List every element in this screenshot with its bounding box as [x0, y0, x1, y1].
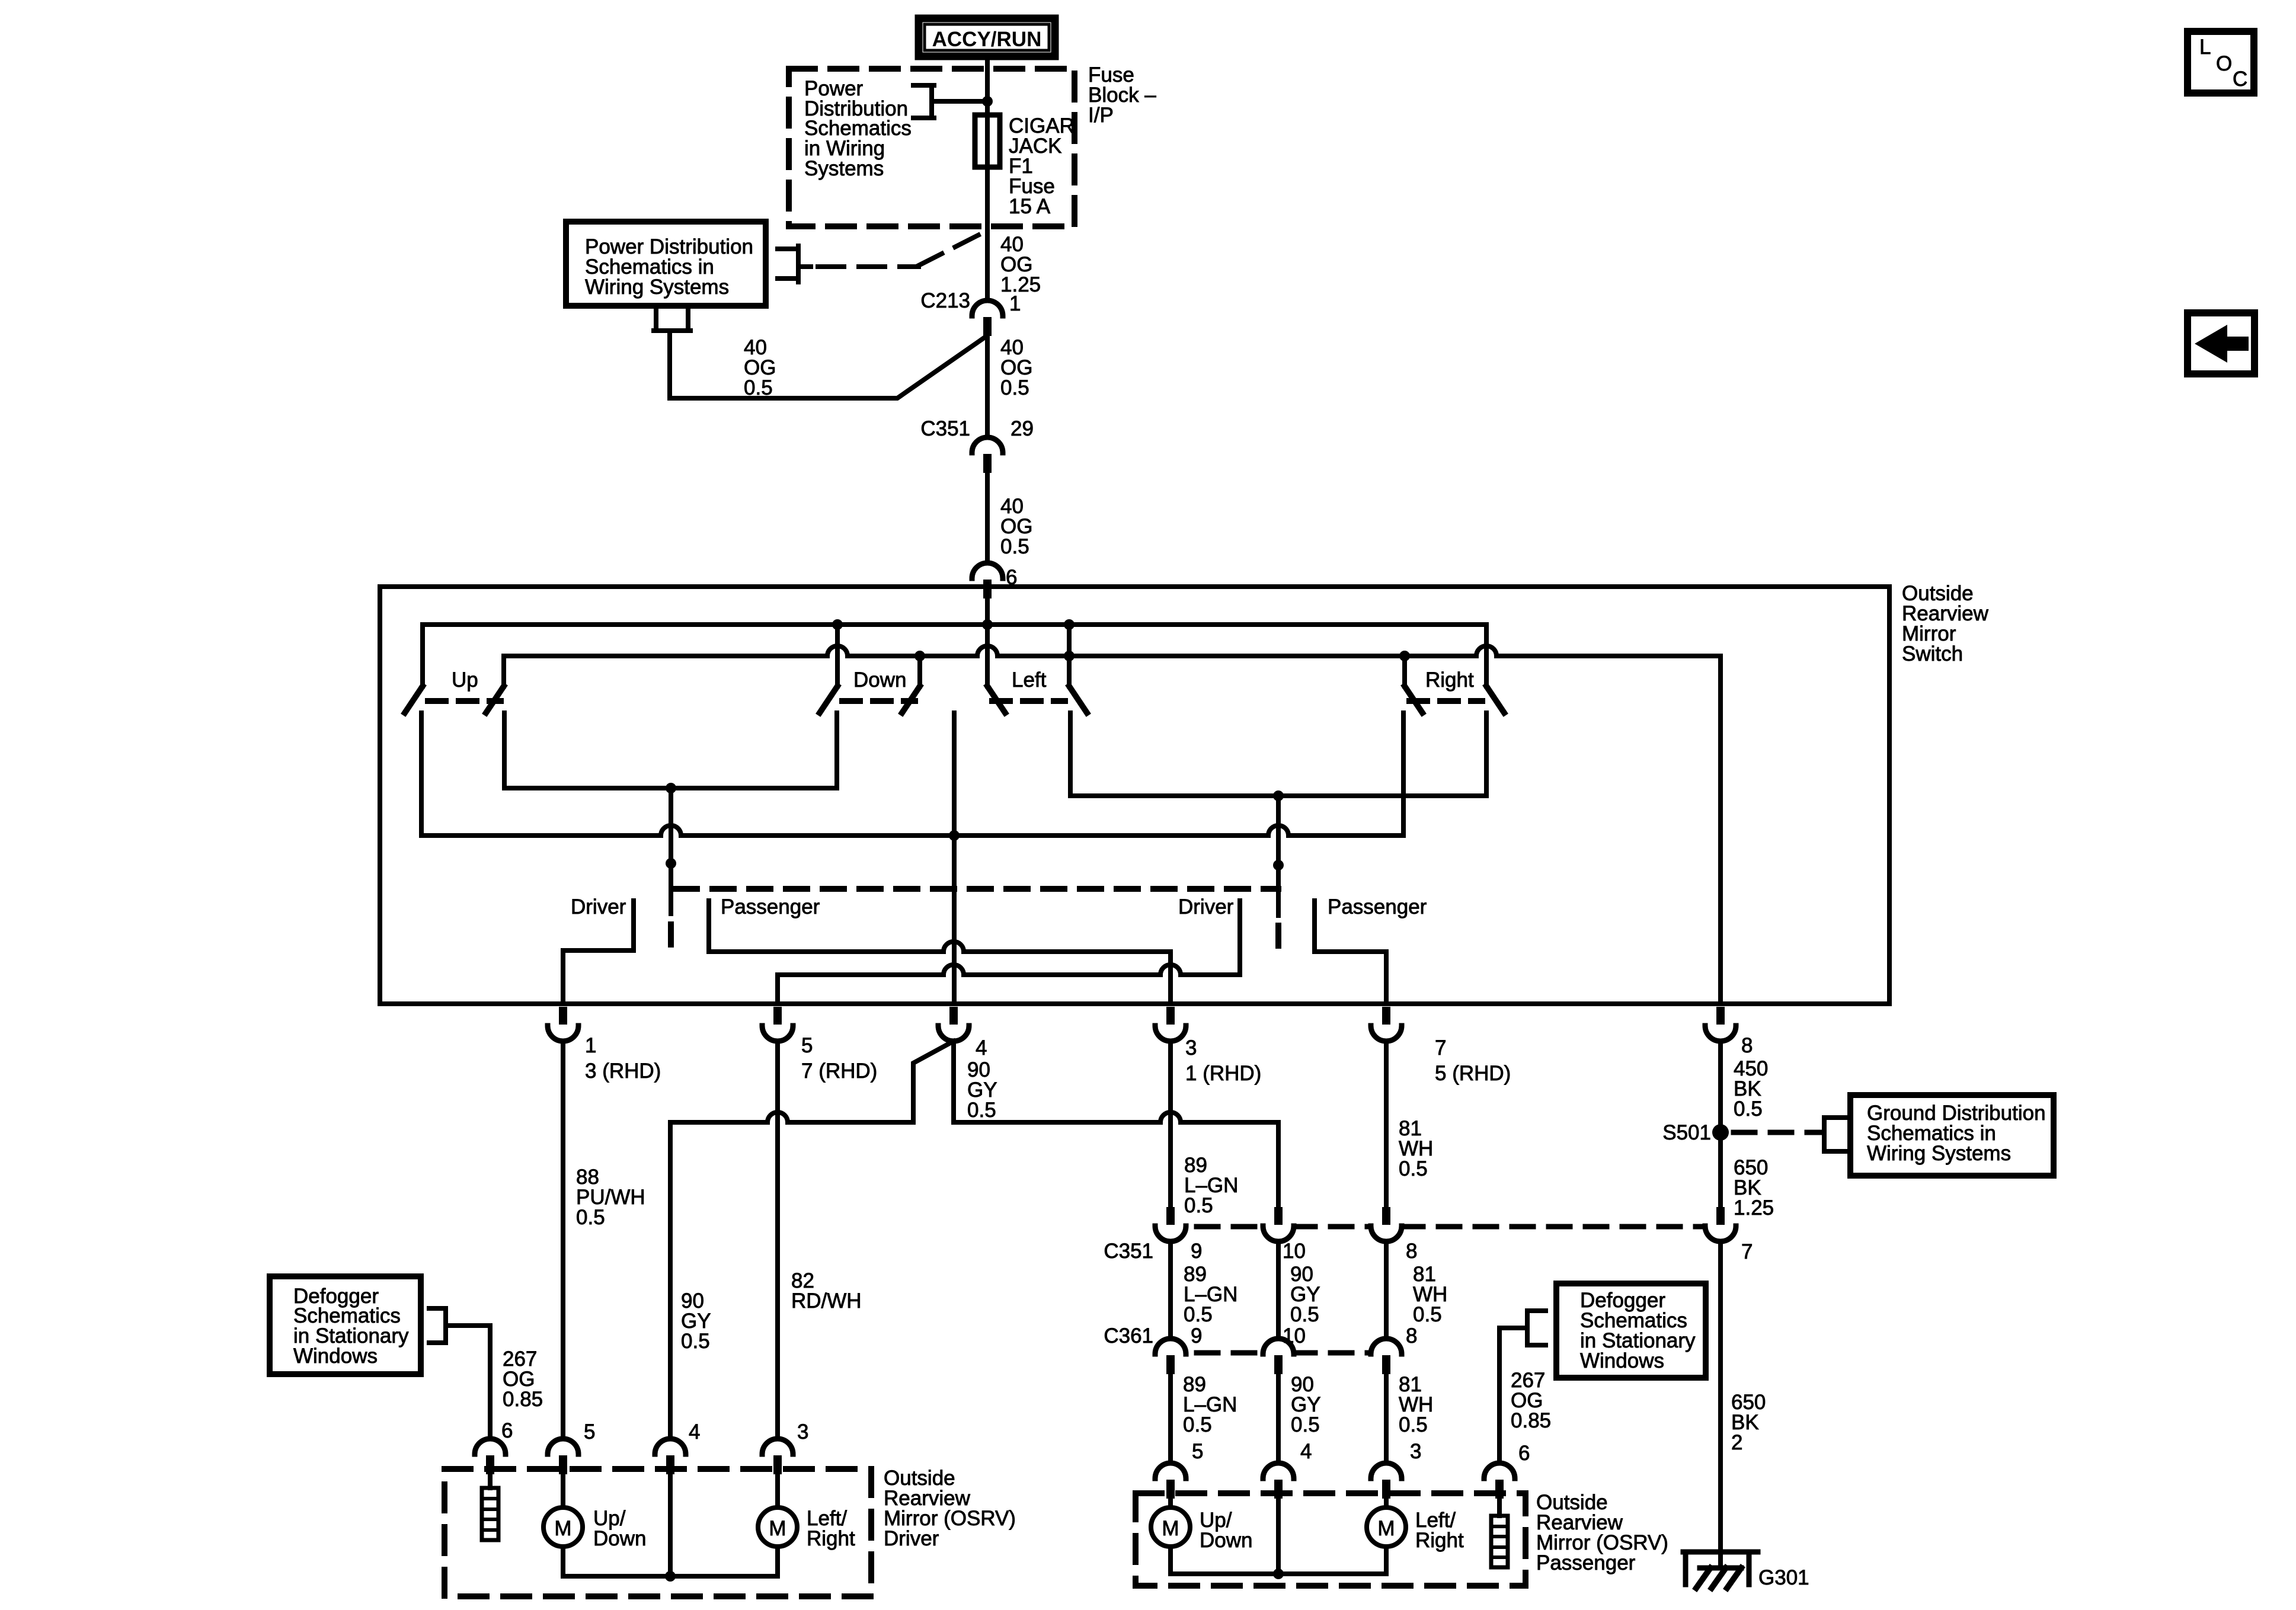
bracket defogger driver	[429, 1308, 446, 1343]
switch Up right blade	[486, 686, 504, 713]
switch Down left blade	[820, 686, 837, 713]
wire defogger driver	[488, 1474, 493, 1488]
svg-text:Right: Right	[1425, 668, 1474, 692]
svg-text:10: 10	[1283, 1240, 1306, 1263]
power source box ACCY/RUN	[919, 18, 1055, 56]
wire defogger passenger	[1497, 1499, 1502, 1516]
switch Up left contact blade	[405, 686, 423, 713]
wire 267 OG passenger	[1499, 1328, 1527, 1463]
svg-text:4: 4	[689, 1420, 700, 1443]
svg-text:5: 5	[584, 1420, 595, 1443]
dashed connector line C361	[1197, 1350, 1371, 1356]
svg-text:G301: G301	[1758, 1566, 1809, 1589]
svg-text:0.5: 0.5	[1000, 376, 1029, 399]
svg-text:Passenger: Passenger	[1328, 895, 1427, 918]
bracket defogger passenger	[1527, 1311, 1546, 1345]
solid box Power Distribution Schematics in Wiring Systems	[566, 222, 766, 306]
svg-text:0.5: 0.5	[967, 1099, 996, 1122]
svg-text:0.5: 0.5	[1413, 1303, 1442, 1326]
switch Down left contact feed	[835, 625, 840, 686]
svg-text:3 (RHD): 3 (RHD)	[585, 1060, 661, 1083]
switch Right left contact feed	[1402, 656, 1407, 686]
bracket power distribution reference	[913, 85, 934, 118]
svg-text:5: 5	[1192, 1440, 1203, 1463]
dashed box outside rearview mirror passenger	[1136, 1493, 1526, 1586]
connector mirror driver pin 3	[762, 1439, 793, 1454]
svg-text:M: M	[1377, 1517, 1395, 1540]
connector C351 pin 9	[1166, 1207, 1175, 1225]
wire C213 to C351	[985, 336, 990, 437]
connector pin 8	[1716, 1007, 1725, 1025]
dashed box outside rearview mirror driver	[445, 1469, 871, 1596]
connector C361 pin 10	[1263, 1339, 1294, 1354]
svg-text:15 A: 15 A	[1009, 195, 1051, 218]
svg-text:Left: Left	[1012, 668, 1047, 692]
wire 650 BK 1.25	[1718, 1141, 1723, 1207]
svg-text:1.25: 1.25	[1734, 1196, 1774, 1219]
node S501	[1712, 1124, 1729, 1141]
wire shared output to pin 4	[952, 713, 957, 1004]
svg-text:Passenger: Passenger	[721, 895, 820, 918]
svg-text:I/P: I/P	[1088, 104, 1114, 127]
switch Left right contact feed	[1067, 625, 1072, 686]
wire 90 GY between connectors	[1276, 1241, 1281, 1339]
connector mirror driver pin 4	[655, 1439, 686, 1454]
motor M up/down driver	[543, 1507, 583, 1547]
svg-text:3: 3	[797, 1420, 808, 1443]
svg-text:0.5: 0.5	[1290, 1303, 1319, 1326]
svg-text:RD/WH: RD/WH	[791, 1289, 862, 1313]
defogger element driver	[482, 1488, 498, 1540]
svg-text:0.5: 0.5	[576, 1206, 605, 1229]
wire 89 L-GN pin3 down	[1168, 1041, 1173, 1207]
motor M left/right driver	[758, 1507, 797, 1547]
solid box Defogger Schematics passenger	[1556, 1283, 1706, 1378]
node left-right mech	[1273, 790, 1284, 801]
switch Left left blade	[987, 686, 1005, 713]
connector C213	[972, 300, 1003, 316]
svg-text:1 (RHD): 1 (RHD)	[1185, 1062, 1261, 1085]
node bus2 right-left	[1399, 651, 1410, 661]
svg-text:M: M	[554, 1517, 571, 1540]
svg-text:0.5: 0.5	[1734, 1097, 1763, 1121]
svg-text:L: L	[2199, 36, 2211, 59]
connector mirror driver pin 6	[475, 1439, 506, 1454]
defogger element passenger	[1491, 1516, 1508, 1567]
wire up-down common left	[504, 713, 837, 788]
svg-text:9: 9	[1191, 1240, 1202, 1263]
svg-text:8: 8	[1741, 1034, 1753, 1057]
connector pin 7	[1382, 1007, 1390, 1025]
wire driver select 1 to pin 1	[563, 901, 634, 1004]
wire to passenger mirror pin 5	[1168, 1374, 1173, 1463]
svg-text:1: 1	[1009, 292, 1021, 315]
wire to passenger mirror pin 4	[1276, 1374, 1281, 1463]
svg-text:0.5: 0.5	[1000, 535, 1029, 558]
node passenger mirror bus	[1273, 1569, 1284, 1579]
arrow left	[2195, 325, 2249, 363]
svg-text:Driver: Driver	[884, 1527, 939, 1550]
svg-text:Driver: Driver	[1178, 895, 1234, 918]
switch Right right blade	[1486, 686, 1504, 713]
svg-text:5 (RHD): 5 (RHD)	[1435, 1062, 1511, 1085]
svg-text:6: 6	[501, 1419, 513, 1442]
wire common driver	[668, 1474, 673, 1576]
svg-text:0.5: 0.5	[1399, 1157, 1428, 1180]
wire into switch box	[985, 598, 990, 686]
wire pin4 to passenger column	[954, 1041, 1278, 1207]
svg-text:Right: Right	[1415, 1529, 1464, 1552]
node up-down mech	[666, 783, 676, 793]
wires motor leftright driver	[775, 1474, 780, 1576]
back arrow box	[2188, 313, 2255, 374]
wire passenger mirror bus	[1171, 1571, 1386, 1576]
wire passenger select 1 to pin 3	[709, 901, 1171, 1004]
svg-text:C: C	[2233, 68, 2247, 91]
node bus2 left-right	[1064, 651, 1075, 661]
connector mirror driver pin 5	[548, 1439, 578, 1454]
wire 81 WH between connectors	[1384, 1241, 1389, 1339]
svg-text:0.5: 0.5	[1183, 1413, 1212, 1436]
svg-text:7: 7	[1435, 1036, 1446, 1060]
bus feed lower with hops	[504, 646, 1721, 1004]
bracket ground distribution	[1824, 1118, 1849, 1151]
svg-text:8: 8	[1406, 1240, 1417, 1263]
connector C351 pin 8	[1382, 1207, 1390, 1225]
svg-text:6: 6	[1006, 566, 1017, 589]
svg-text:Up: Up	[452, 668, 478, 692]
dashed wire from bracket	[798, 264, 811, 269]
node tap junction	[982, 96, 993, 107]
switch Down right blade	[902, 686, 920, 713]
svg-text:5: 5	[801, 1034, 813, 1057]
svg-text:Windows: Windows	[293, 1345, 378, 1368]
svg-text:S501: S501	[1662, 1121, 1711, 1144]
svg-text:Down: Down	[853, 668, 906, 692]
svg-text:M: M	[769, 1517, 786, 1540]
wire left-right common right	[1070, 713, 1486, 796]
wire 88 PU/WH pin1 to mirror	[561, 1041, 565, 1439]
switch Left right blade	[1069, 686, 1087, 713]
svg-text:0.5: 0.5	[1184, 1303, 1213, 1326]
wire to passenger mirror pin 3	[1384, 1374, 1389, 1463]
svg-text:Down: Down	[1200, 1529, 1252, 1552]
svg-text:4: 4	[1300, 1440, 1312, 1463]
svg-text:Wiring Systems: Wiring Systems	[585, 276, 729, 299]
solid box Ground Distribution Schematics in Wiring Systems	[1850, 1095, 2054, 1176]
connector mirror passenger pin 5	[1155, 1463, 1186, 1478]
wire 89 L-GN between connectors	[1168, 1241, 1173, 1339]
svg-text:8: 8	[1406, 1324, 1417, 1347]
svg-text:7 (RHD): 7 (RHD)	[801, 1060, 877, 1083]
fuse F1 CIGAR JACK 15A	[975, 115, 1000, 167]
node bus1 main feed	[982, 619, 993, 630]
switch Down right contact feed	[917, 656, 922, 686]
svg-text:0.5: 0.5	[1184, 1194, 1213, 1217]
connector pin 1	[559, 1007, 567, 1025]
bracket right of power distribution box	[778, 246, 798, 282]
wire tap to bracket	[932, 99, 987, 104]
svg-text:Right: Right	[807, 1527, 855, 1550]
svg-text:0.85: 0.85	[1511, 1409, 1551, 1432]
svg-text:3: 3	[1185, 1036, 1197, 1060]
svg-text:Switch: Switch	[1902, 642, 1963, 665]
svg-text:9: 9	[1191, 1324, 1202, 1347]
mechanical link Right	[1409, 698, 1482, 704]
wire pin4 jog left	[913, 1041, 954, 1122]
node bus1 down	[832, 619, 843, 630]
dashed wire S501 to ground distribution	[1734, 1130, 1821, 1135]
node driver mirror bus	[665, 1571, 676, 1582]
node bus2 down-right	[914, 651, 925, 661]
connector C361 pin 8	[1371, 1339, 1402, 1354]
wire collector with hops	[421, 713, 1403, 836]
wire passenger select 2 to pin 7	[1315, 901, 1386, 1004]
ground G301	[1683, 1552, 1758, 1585]
svg-text:10: 10	[1283, 1324, 1306, 1347]
wire mech selector left	[669, 788, 673, 914]
wire 40 OG 0.5 branch	[670, 331, 985, 398]
svg-text:O: O	[2216, 52, 2232, 75]
connector mirror passenger pin 6	[1484, 1463, 1515, 1478]
connector pin 4	[949, 1007, 958, 1025]
svg-text:0.5: 0.5	[1399, 1413, 1428, 1436]
svg-text:Wiring Systems: Wiring Systems	[1867, 1142, 2011, 1165]
svg-text:1: 1	[585, 1034, 596, 1057]
wire 90 GY to driver mirror	[670, 1112, 913, 1122]
connector C361 pin 9	[1155, 1339, 1186, 1354]
connector pin 3	[1166, 1007, 1175, 1025]
svg-text:Down: Down	[593, 1527, 646, 1550]
wire 81 WH pin7 down	[1384, 1041, 1389, 1207]
svg-text:C361: C361	[1104, 1324, 1153, 1347]
svg-text:0.85: 0.85	[503, 1388, 543, 1411]
wire mech selector right	[1276, 796, 1281, 916]
svg-text:Systems: Systems	[804, 157, 884, 180]
wire 267 OG driver	[446, 1326, 490, 1439]
svg-text:29: 29	[1011, 417, 1034, 440]
wire 650 BK 2 to ground	[1718, 1241, 1723, 1568]
switch Up right contact feed	[501, 656, 506, 686]
svg-text:4: 4	[976, 1036, 987, 1060]
svg-text:6: 6	[1518, 1442, 1530, 1465]
wire C351 to switch connector	[985, 473, 990, 563]
fuse block I/P dashed box	[789, 69, 1075, 226]
connector pin 6 of switch	[972, 563, 1003, 578]
mechanical link selector dashed	[676, 886, 1278, 892]
svg-text:2: 2	[1731, 1431, 1742, 1454]
mechanical link Down	[842, 698, 915, 704]
mechanical link Left	[992, 698, 1065, 704]
svg-text:ACCY/RUN: ACCY/RUN	[932, 28, 1042, 51]
connector pin 5	[773, 1007, 782, 1025]
motor M up/down passenger	[1151, 1507, 1190, 1547]
svg-text:C351: C351	[1104, 1240, 1153, 1263]
connector stub under power distribution box	[654, 306, 690, 331]
connector C351 pin 10	[1274, 1207, 1283, 1225]
svg-text:Driver: Driver	[571, 895, 626, 918]
wire driver mirror bus	[563, 1574, 778, 1579]
connector mirror passenger pin 3	[1371, 1463, 1402, 1478]
wire driver select 2 to pin 5	[778, 901, 1240, 1004]
svg-text:Passenger: Passenger	[1536, 1551, 1636, 1574]
svg-text:0.5: 0.5	[1291, 1413, 1320, 1436]
loc reference box	[2188, 31, 2254, 93]
svg-text:0.5: 0.5	[681, 1330, 710, 1353]
switch Right left blade	[1405, 686, 1422, 713]
dashed connector line C351	[1197, 1224, 1705, 1230]
wire 450 BK pin8 down	[1718, 1041, 1723, 1124]
svg-text:Windows: Windows	[1580, 1349, 1664, 1372]
connector C351 pin 7 ground	[1716, 1207, 1725, 1225]
connector C351 pin 29	[972, 437, 1003, 453]
svg-text:C213: C213	[920, 289, 970, 312]
connector mirror passenger pin 4	[1263, 1463, 1294, 1478]
wire 82 RD/WH pin5 to mirror	[775, 1041, 780, 1439]
motor M left/right passenger	[1367, 1507, 1406, 1547]
svg-text:0.5: 0.5	[744, 376, 773, 399]
wire ACCY/RUN to fuse	[985, 60, 990, 300]
solid box Defogger Schematics driver	[270, 1276, 421, 1374]
svg-text:7: 7	[1741, 1240, 1753, 1263]
bus feed upper	[423, 625, 1486, 686]
wires motor updown driver	[561, 1474, 565, 1576]
node bus1 left-right	[1064, 619, 1075, 630]
mechanical link Up	[428, 698, 501, 704]
node pin4 tap	[949, 830, 960, 841]
svg-text:C351: C351	[920, 417, 970, 440]
outside rearview mirror switch box	[380, 587, 1889, 1004]
wire common passenger	[1276, 1499, 1281, 1574]
svg-text:3: 3	[1410, 1440, 1421, 1463]
svg-text:M: M	[1162, 1517, 1179, 1540]
